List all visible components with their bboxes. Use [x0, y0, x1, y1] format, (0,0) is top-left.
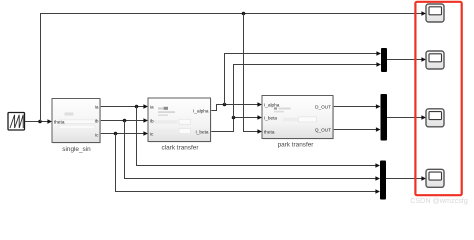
scope Scope2	[426, 51, 444, 69]
svg-text:I_beta: I_beta	[264, 116, 277, 121]
arrowhead into clark ia	[143, 104, 148, 109]
wire: ib branch down to bottom Mux input 2	[125, 121, 376, 179]
wire: single_sin ib to clark ib	[100, 120, 144, 122]
wire: park Q_OUT to middle Mux input 2	[333, 129, 376, 131]
annotation red rectangle around scopes	[415, 2, 461, 195]
wire: single_sin ic to clark ic	[100, 133, 144, 135]
wire: theta branch up and across top to Scope1	[41, 14, 422, 122]
subsystem park transfer	[262, 96, 334, 149]
svg-text:I_alpha: I_alpha	[193, 109, 209, 114]
wire: clark I_beta to park I_beta	[211, 118, 258, 132]
arrowhead into top Mux input 2	[376, 62, 381, 67]
wire: clark I_alpha to park I_alpha	[211, 105, 258, 111]
scope Scope4	[426, 169, 444, 187]
svg-text:CSDN @wmzcsfg: CSDN @wmzcsfg	[410, 196, 468, 205]
arrowhead into clark ib	[143, 118, 148, 123]
wire: theta drop from top wire to park transfer theta input	[244, 14, 258, 132]
node: junction on I_alpha wire	[223, 103, 227, 107]
arrowhead into Scope3	[421, 115, 426, 120]
svg-text:ib: ib	[95, 119, 99, 124]
node: junction on I_beta wire	[232, 116, 236, 120]
arrowhead into bottom Mux input 1	[375, 163, 380, 168]
arrowhead into Scope2	[421, 57, 426, 62]
scope Scope1	[426, 4, 444, 22]
wire: middle Mux output to Scope3	[387, 117, 422, 119]
svg-text:park transfer: park transfer	[278, 141, 315, 148]
arrowhead into single_sin theta	[47, 119, 52, 124]
arrowhead into park I_alpha	[257, 102, 262, 107]
svg-text:theta: theta	[54, 120, 65, 125]
arrowhead into middle Mux input 1	[376, 104, 381, 109]
mux Mux2 (middle)	[381, 94, 388, 141]
node: junction on top theta wire	[242, 12, 246, 16]
svg-text:theta: theta	[264, 130, 275, 135]
wire: single_sin ia to clark ia	[100, 106, 144, 108]
signal generator block (repeating sawtooth source)	[8, 113, 25, 131]
svg-text:ia: ia	[95, 105, 99, 110]
subsystem clark transfer	[148, 98, 212, 152]
svg-text:D_OUT: D_OUT	[315, 105, 331, 110]
svg-text:ia: ia	[150, 105, 154, 110]
node: junction on ia wire	[135, 105, 139, 109]
mux Mux1 (top)	[381, 48, 387, 72]
wire: bottom Mux output to Scope4	[386, 178, 422, 180]
wire: signal generator output to single_sin theta input	[25, 121, 48, 123]
node: junction on ic wire	[114, 132, 118, 136]
arrowhead into park theta	[257, 129, 262, 134]
wire: I_alpha branch up to top Mux input 1	[225, 54, 377, 105]
svg-text:single_sin: single_sin	[62, 146, 91, 153]
svg-text:Q_OUT: Q_OUT	[315, 128, 331, 133]
wire: top Mux output to Scope2	[387, 59, 422, 61]
wire: ic branch down to bottom Mux input 3	[116, 134, 376, 192]
scope Scope3	[426, 109, 444, 127]
arrowhead into Scope4	[421, 176, 426, 181]
svg-text:clark transfer: clark transfer	[162, 145, 200, 152]
wire: ia branch down to bottom Mux input 1	[137, 107, 376, 166]
node: junction on ib wire	[123, 119, 127, 123]
arrowhead into clark ic	[143, 131, 148, 136]
svg-text:ib: ib	[150, 119, 154, 124]
arrowhead into Scope1	[421, 11, 426, 16]
arrowhead into top Mux input 1	[376, 51, 381, 56]
arrowhead into park I_beta	[257, 115, 262, 120]
arrowhead into middle Mux input 2	[376, 127, 381, 132]
mux Mux3 (bottom)	[380, 161, 386, 200]
park interior preview	[274, 107, 277, 109]
svg-text:I_alpha: I_alpha	[264, 103, 280, 108]
node: junction on theta wire	[38, 120, 42, 124]
wire: park D_OUT to middle Mux input 1	[333, 106, 376, 108]
subsystem single_sin	[52, 99, 101, 154]
arrowhead into bottom Mux input 3	[375, 189, 380, 194]
clark interior preview	[158, 108, 163, 110]
single_sin interior preview	[65, 113, 74, 116]
arrowhead into bottom Mux input 2	[375, 176, 380, 181]
wire: I_beta branch up to top Mux input 2	[234, 65, 377, 118]
svg-text:I_beta: I_beta	[195, 130, 208, 135]
